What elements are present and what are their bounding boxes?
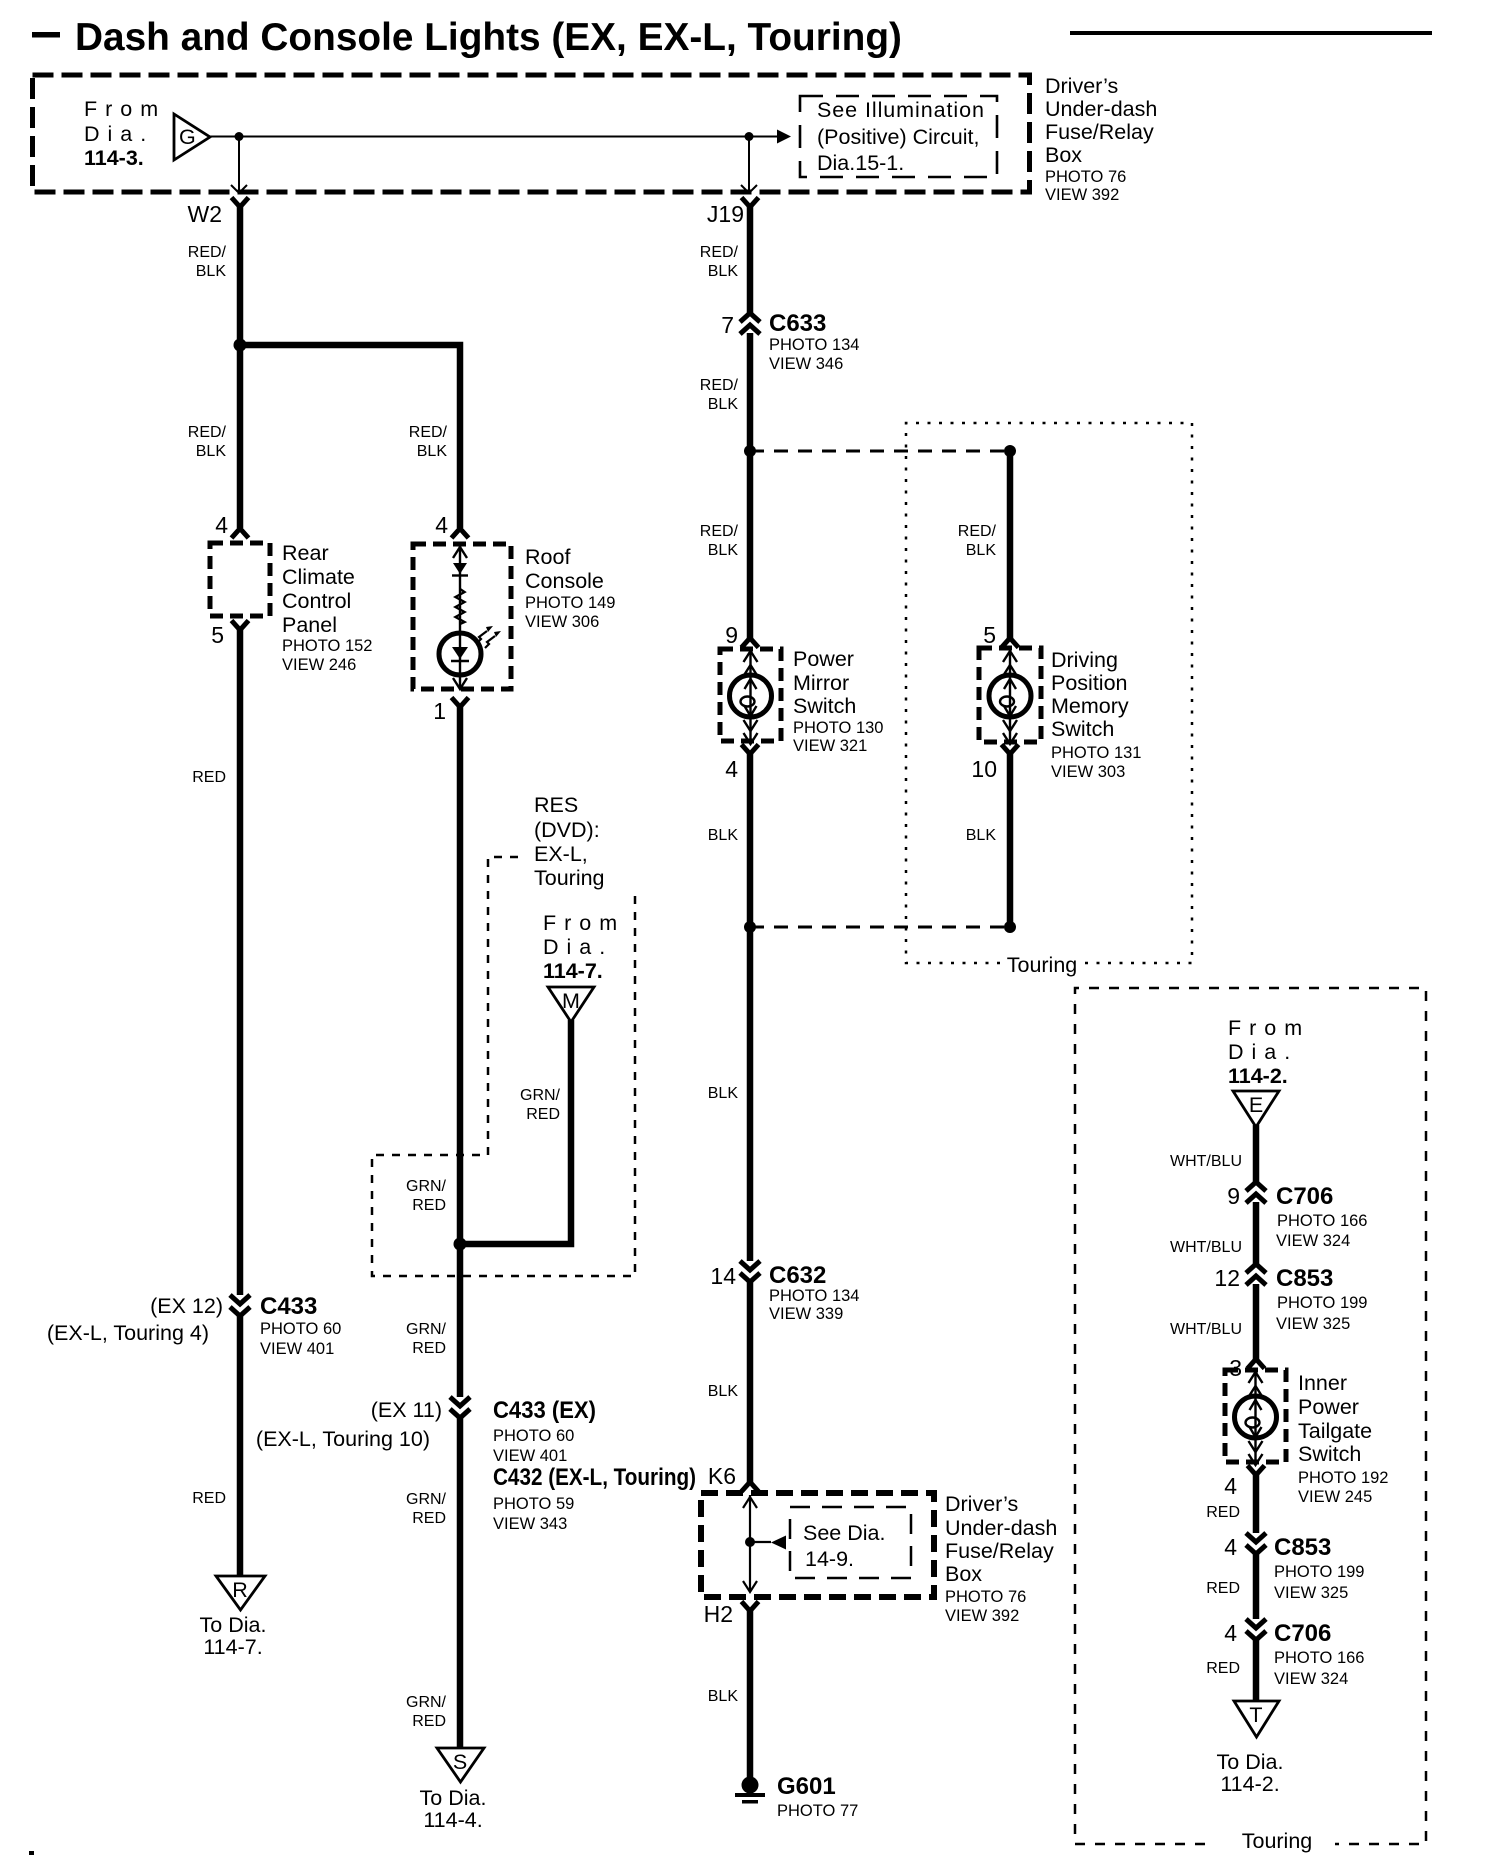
svg-text:PHOTO 131: PHOTO 131 bbox=[1051, 744, 1141, 762]
svg-text:RED/: RED/ bbox=[188, 424, 227, 441]
svg-text:114-4.: 114-4. bbox=[423, 1808, 482, 1832]
svg-text:BLK: BLK bbox=[708, 1085, 739, 1102]
svg-text:C432 (EX-L, Touring): C432 (EX-L, Touring) bbox=[493, 1464, 696, 1491]
connector C706 pin 9 (top) bbox=[1246, 1182, 1266, 1203]
svg-text:Dia.: Dia. bbox=[543, 935, 613, 959]
wire down (RED) bbox=[1253, 1639, 1260, 1701]
svg-text:BLK: BLK bbox=[966, 542, 997, 559]
svg-text:RED/: RED/ bbox=[700, 377, 739, 394]
wire down (RED) bbox=[1253, 1553, 1260, 1619]
svg-text:10: 10 bbox=[971, 756, 997, 782]
svg-text:BLK: BLK bbox=[708, 827, 739, 844]
svg-text:GRN/: GRN/ bbox=[406, 1178, 447, 1195]
svg-text:VIEW 339: VIEW 339 bbox=[769, 1305, 843, 1323]
wire W2 down (RED/BLK) bbox=[237, 205, 244, 528]
svg-text:RED: RED bbox=[412, 1197, 446, 1214]
svg-text:Switch: Switch bbox=[1298, 1442, 1361, 1466]
wire E down (WHT/BLU) bbox=[1253, 1125, 1260, 1183]
svg-text:See Dia.: See Dia. bbox=[803, 1521, 885, 1545]
svg-text:PHOTO 77: PHOTO 77 bbox=[777, 1802, 858, 1820]
driving position memory switch lamp bbox=[989, 650, 1031, 744]
svg-text:RED/: RED/ bbox=[188, 244, 227, 261]
svg-text:Driver’s: Driver’s bbox=[1045, 74, 1118, 98]
connector C633 pin 7 bbox=[740, 313, 760, 334]
svg-text:PHOTO 199: PHOTO 199 bbox=[1274, 1563, 1364, 1581]
svg-text:Box: Box bbox=[945, 1562, 982, 1586]
svg-text:RED/: RED/ bbox=[700, 523, 739, 540]
svg-text:RED: RED bbox=[412, 1510, 446, 1527]
svg-text:PHOTO 134: PHOTO 134 bbox=[769, 1287, 859, 1305]
connector C706 pin 4 (bottom) bbox=[1246, 1619, 1266, 1640]
svg-text:RED: RED bbox=[1206, 1580, 1240, 1597]
terminal J19 fork bbox=[742, 198, 759, 208]
svg-text:G601: G601 bbox=[777, 1773, 836, 1800]
inner power tailgate switch lamp bbox=[1235, 1371, 1277, 1465]
svg-text:K6: K6 bbox=[708, 1463, 736, 1489]
svg-text:VIEW 392: VIEW 392 bbox=[1045, 186, 1119, 204]
title dash bbox=[32, 32, 60, 38]
svg-text:14-9.: 14-9. bbox=[805, 1547, 854, 1571]
node junction GRN/RED bbox=[454, 1238, 467, 1251]
svg-text:RED: RED bbox=[412, 1713, 446, 1730]
See Illumination (Positive) Circuit box bbox=[800, 96, 997, 177]
svg-text:VIEW 321: VIEW 321 bbox=[793, 737, 867, 755]
triangle G (from dia 114-3) bbox=[174, 114, 210, 160]
svg-text:VIEW 324: VIEW 324 bbox=[1274, 1670, 1348, 1688]
svg-text:Driving: Driving bbox=[1051, 648, 1118, 672]
svg-text:Power: Power bbox=[1298, 1395, 1359, 1419]
connector C853 pin 4 (bottom) bbox=[1246, 1533, 1266, 1554]
svg-text:Switch: Switch bbox=[1051, 717, 1114, 741]
svg-text:BLK: BLK bbox=[417, 443, 448, 460]
touring dotted box (driving position memory switch) bbox=[906, 423, 1192, 963]
svg-text:From: From bbox=[84, 97, 166, 121]
power mirror switch box bbox=[720, 649, 781, 741]
svg-text:To Dia.: To Dia. bbox=[420, 1786, 487, 1810]
svg-text:RED: RED bbox=[192, 769, 226, 786]
wire H2 down (BLK) bbox=[747, 1610, 754, 1778]
svg-text:BLK: BLK bbox=[196, 443, 227, 460]
svg-text:Roof: Roof bbox=[525, 545, 570, 569]
top right rule bbox=[1070, 31, 1432, 35]
svg-text:Climate: Climate bbox=[282, 565, 355, 589]
wire down (RED) bbox=[1253, 1474, 1260, 1533]
svg-text:14: 14 bbox=[710, 1263, 736, 1289]
svg-text:(EX-L, Touring 4): (EX-L, Touring 4) bbox=[47, 1321, 209, 1345]
svg-text:Touring: Touring bbox=[534, 866, 605, 890]
svg-text:4: 4 bbox=[435, 512, 448, 538]
node junction at J19 drop bbox=[745, 132, 754, 141]
svg-text:RED: RED bbox=[526, 1106, 560, 1123]
svg-text:Dia.: Dia. bbox=[84, 122, 154, 146]
internal wire in fuse box bbox=[743, 1495, 771, 1592]
wire down (WHT/BLU) bbox=[1253, 1284, 1260, 1359]
terminal W2 fork bbox=[232, 198, 249, 208]
svg-text:Box: Box bbox=[1045, 143, 1082, 167]
svg-text:C632: C632 bbox=[769, 1262, 826, 1289]
svg-text:C853: C853 bbox=[1274, 1534, 1331, 1561]
roof console diode symbols (filled) bbox=[453, 563, 467, 574]
svg-text:From: From bbox=[1228, 1016, 1310, 1040]
triangle E from dia 114-2 bbox=[1233, 1091, 1279, 1127]
svg-text:Under-dash: Under-dash bbox=[945, 1516, 1057, 1540]
svg-text:S: S bbox=[453, 1750, 467, 1774]
svg-text:VIEW 306: VIEW 306 bbox=[525, 613, 599, 631]
svg-text:Memory: Memory bbox=[1051, 694, 1129, 718]
wire branch to roof console bbox=[240, 345, 460, 528]
svg-text:Inner: Inner bbox=[1298, 1371, 1347, 1395]
svg-text:Touring: Touring bbox=[1007, 953, 1078, 977]
svg-text:PHOTO 134: PHOTO 134 bbox=[769, 336, 859, 354]
svg-text:RED: RED bbox=[412, 1340, 446, 1357]
svg-text:(Positive) Circuit,: (Positive) Circuit, bbox=[817, 125, 979, 149]
svg-text:VIEW 401: VIEW 401 bbox=[260, 1340, 334, 1358]
wire mirror switch down (BLK) bbox=[747, 753, 754, 927]
wire J19 down (RED/BLK) bbox=[747, 205, 754, 314]
svg-text:RED/: RED/ bbox=[700, 244, 739, 261]
svg-text:PHOTO 76: PHOTO 76 bbox=[1045, 168, 1126, 186]
triangle T to dia 114-2 bbox=[1234, 1701, 1279, 1737]
svg-text:Position: Position bbox=[1051, 671, 1128, 695]
svg-text:(EX-L, Touring 10): (EX-L, Touring 10) bbox=[256, 1427, 430, 1451]
wire from M down and to junction bbox=[460, 1020, 571, 1244]
svg-text:Rear: Rear bbox=[282, 541, 329, 565]
svg-text:GRN/: GRN/ bbox=[406, 1491, 447, 1508]
driver's under-dash fuse/relay box (bottom) bbox=[701, 1493, 934, 1597]
svg-text:RED: RED bbox=[192, 1490, 226, 1507]
svg-text:12: 12 bbox=[1214, 1265, 1240, 1291]
svg-text:(EX 11): (EX 11) bbox=[371, 1398, 442, 1422]
rear climate control panel box bbox=[210, 543, 270, 616]
svg-text:PHOTO 60: PHOTO 60 bbox=[260, 1320, 341, 1338]
wire down to C632 bbox=[747, 927, 754, 1261]
svg-text:Touring: Touring bbox=[1242, 1829, 1313, 1853]
svg-text:PHOTO 152: PHOTO 152 bbox=[282, 637, 372, 655]
connector C433 (left) bbox=[230, 1295, 250, 1316]
svg-text:H2: H2 bbox=[704, 1601, 733, 1627]
svg-text:(EX 12): (EX 12) bbox=[150, 1294, 223, 1318]
svg-text:Dia.: Dia. bbox=[1228, 1040, 1298, 1064]
svg-text:Power: Power bbox=[793, 647, 854, 671]
driver's under-dash fuse/relay box (top, dashed) bbox=[33, 75, 1030, 192]
wire C632 down (BLK) bbox=[747, 1281, 754, 1482]
svg-text:Dia.15-1.: Dia.15-1. bbox=[817, 151, 904, 175]
svg-text:GRN/: GRN/ bbox=[406, 1694, 447, 1711]
svg-text:GRN/: GRN/ bbox=[520, 1087, 561, 1104]
svg-text:VIEW 245: VIEW 245 bbox=[1298, 1488, 1372, 1506]
triangle S to dia 114-4 bbox=[437, 1748, 484, 1782]
triangle M from dia 114-7 bbox=[548, 987, 594, 1022]
svg-text:VIEW 392: VIEW 392 bbox=[945, 1607, 1019, 1625]
svg-text:1: 1 bbox=[433, 698, 446, 724]
connector C853 pin 12 (top) bbox=[1246, 1264, 1266, 1285]
node junction inside fuse box bbox=[745, 1537, 755, 1547]
svg-text:BLK: BLK bbox=[708, 542, 739, 559]
svg-text:J19: J19 bbox=[707, 201, 744, 227]
svg-text:4: 4 bbox=[1224, 1473, 1237, 1499]
svg-text:PHOTO 166: PHOTO 166 bbox=[1274, 1649, 1364, 1667]
connector C433(EX)/C432 bbox=[450, 1397, 470, 1418]
svg-text:114-7.: 114-7. bbox=[203, 1635, 262, 1659]
svg-text:BLK: BLK bbox=[196, 263, 227, 280]
wire down (WHT/BLU) bbox=[1253, 1202, 1260, 1264]
svg-text:E: E bbox=[1249, 1093, 1263, 1117]
svg-text:Control: Control bbox=[282, 589, 351, 613]
svg-text:114-2.: 114-2. bbox=[1220, 1772, 1279, 1796]
svg-text:PHOTO 199: PHOTO 199 bbox=[1277, 1294, 1367, 1312]
svg-text:RED/: RED/ bbox=[409, 424, 448, 441]
svg-text:C633: C633 bbox=[769, 310, 826, 337]
svg-text:RES: RES bbox=[534, 793, 578, 817]
svg-text:9: 9 bbox=[1227, 1183, 1240, 1209]
svg-text:Console: Console bbox=[525, 569, 604, 593]
svg-text:PHOTO 192: PHOTO 192 bbox=[1298, 1469, 1388, 1487]
svg-text:9: 9 bbox=[725, 622, 738, 648]
svg-text:(DVD):: (DVD): bbox=[534, 818, 600, 842]
svg-text:114-3.: 114-3. bbox=[84, 146, 144, 170]
power mirror switch lamp bbox=[730, 650, 772, 744]
svg-text:PHOTO 149: PHOTO 149 bbox=[525, 594, 615, 612]
svg-text:BLK: BLK bbox=[708, 1383, 739, 1400]
svg-text:Fuse/Relay: Fuse/Relay bbox=[945, 1539, 1054, 1563]
wire dashed link bottom bbox=[750, 926, 1010, 929]
stray dot bottom left bbox=[29, 1851, 34, 1855]
svg-text:Mirror: Mirror bbox=[793, 671, 849, 695]
svg-text:BLK: BLK bbox=[966, 827, 997, 844]
dotted region RES DVD bbox=[372, 857, 635, 1276]
wire climate to C433 (RED) bbox=[237, 629, 244, 1295]
svg-text:VIEW 324: VIEW 324 bbox=[1276, 1232, 1350, 1250]
svg-text:W2: W2 bbox=[188, 201, 223, 227]
svg-text:RED/: RED/ bbox=[958, 523, 997, 540]
triangle R to dia 114-7 bbox=[216, 1576, 265, 1610]
svg-text:VIEW 346: VIEW 346 bbox=[769, 355, 843, 373]
svg-text:BLK: BLK bbox=[708, 263, 739, 280]
node junction to touring branch (bottom) bbox=[744, 921, 756, 933]
roof console internals: arrow, diode, resistor, LED bbox=[439, 546, 495, 689]
svg-text:M: M bbox=[562, 989, 580, 1013]
svg-text:VIEW 401: VIEW 401 bbox=[493, 1447, 567, 1465]
svg-text:G: G bbox=[179, 125, 196, 149]
node junction at W2 drop bbox=[235, 132, 244, 141]
roof console box bbox=[413, 544, 511, 689]
svg-text:4: 4 bbox=[1224, 1534, 1237, 1560]
svg-text:From: From bbox=[543, 911, 625, 935]
svg-text:VIEW 303: VIEW 303 bbox=[1051, 763, 1125, 781]
svg-text:R: R bbox=[232, 1578, 248, 1602]
wire thin drop to J19 bbox=[748, 137, 750, 192]
svg-text:VIEW 343: VIEW 343 bbox=[493, 1515, 567, 1533]
ground G601 bbox=[742, 1777, 759, 1794]
svg-text:Under-dash: Under-dash bbox=[1045, 97, 1157, 121]
svg-text:7: 7 bbox=[721, 312, 734, 338]
svg-text:WHT/BLU: WHT/BLU bbox=[1170, 1239, 1242, 1256]
svg-text:4: 4 bbox=[1224, 1620, 1237, 1646]
svg-text:114-7.: 114-7. bbox=[543, 959, 603, 983]
svg-text:To Dia.: To Dia. bbox=[1217, 1750, 1284, 1774]
svg-text:RED: RED bbox=[1206, 1504, 1240, 1521]
svg-text:Panel: Panel bbox=[282, 613, 337, 637]
wire driving switch down (BLK) bbox=[1007, 753, 1014, 927]
See Dia. 14-9. box bbox=[790, 1507, 911, 1578]
svg-text:114-2.: 114-2. bbox=[1228, 1064, 1288, 1088]
svg-text:To Dia.: To Dia. bbox=[200, 1613, 267, 1637]
svg-text:See Illumination: See Illumination bbox=[817, 98, 984, 122]
svg-text:BLK: BLK bbox=[708, 1688, 739, 1705]
arrow to See Dia box bbox=[771, 1536, 786, 1550]
svg-text:4: 4 bbox=[725, 756, 738, 782]
svg-text:4: 4 bbox=[215, 512, 228, 538]
svg-text:PHOTO 130: PHOTO 130 bbox=[793, 719, 883, 737]
svg-text:PHOTO 59: PHOTO 59 bbox=[493, 1495, 574, 1513]
svg-text:VIEW 246: VIEW 246 bbox=[282, 656, 356, 674]
svg-text:C433: C433 bbox=[260, 1293, 317, 1320]
svg-text:VIEW 325: VIEW 325 bbox=[1274, 1584, 1348, 1602]
arrow into See Illumination box bbox=[777, 130, 791, 144]
svg-text:C853: C853 bbox=[1276, 1265, 1333, 1292]
svg-text:C706: C706 bbox=[1274, 1620, 1331, 1647]
connector C632 pin 14 bbox=[740, 1261, 760, 1282]
svg-text:C433 (EX): C433 (EX) bbox=[493, 1397, 596, 1424]
touring dashed box (right, inner power tailgate switch) bbox=[1075, 988, 1426, 1844]
wire C633 down bbox=[747, 333, 754, 638]
svg-text:5: 5 bbox=[983, 622, 996, 648]
driving position memory switch box bbox=[979, 648, 1041, 742]
node junction to touring branch (top) bbox=[744, 445, 756, 457]
svg-text:T: T bbox=[1249, 1703, 1262, 1727]
wire roof console down (GRN/RED) bbox=[457, 706, 464, 1397]
svg-text:GRN/: GRN/ bbox=[406, 1321, 447, 1338]
svg-text:VIEW 325: VIEW 325 bbox=[1276, 1315, 1350, 1333]
svg-text:Dash and Console Lights (EX, E: Dash and Console Lights (EX, EX-L, Touri… bbox=[75, 16, 902, 59]
svg-text:PHOTO 76: PHOTO 76 bbox=[945, 1588, 1026, 1606]
svg-text:RED: RED bbox=[1206, 1660, 1240, 1677]
wire dashed link top bbox=[750, 450, 1010, 453]
svg-text:Switch: Switch bbox=[793, 694, 856, 718]
inner power tailgate switch box bbox=[1225, 1370, 1286, 1462]
svg-text:PHOTO 60: PHOTO 60 bbox=[493, 1427, 574, 1445]
wire thin drop to W2 bbox=[238, 137, 240, 192]
svg-text:5: 5 bbox=[211, 622, 224, 648]
svg-text:PHOTO 166: PHOTO 166 bbox=[1277, 1212, 1367, 1230]
svg-text:WHT/BLU: WHT/BLU bbox=[1170, 1321, 1242, 1338]
wire touring branch down (RED/BLK) bbox=[1007, 451, 1014, 638]
svg-text:BLK: BLK bbox=[708, 396, 739, 413]
svg-text:EX-L,: EX-L, bbox=[534, 842, 588, 866]
wire (thin) from G to illumination arrow bbox=[210, 136, 778, 138]
svg-text:C706: C706 bbox=[1276, 1183, 1333, 1210]
svg-text:WHT/BLU: WHT/BLU bbox=[1170, 1153, 1242, 1170]
node junction left branch bbox=[234, 339, 247, 352]
svg-text:Tailgate: Tailgate bbox=[1298, 1419, 1372, 1443]
svg-text:Fuse/Relay: Fuse/Relay bbox=[1045, 120, 1154, 144]
svg-text:Driver’s: Driver’s bbox=[945, 1492, 1018, 1516]
